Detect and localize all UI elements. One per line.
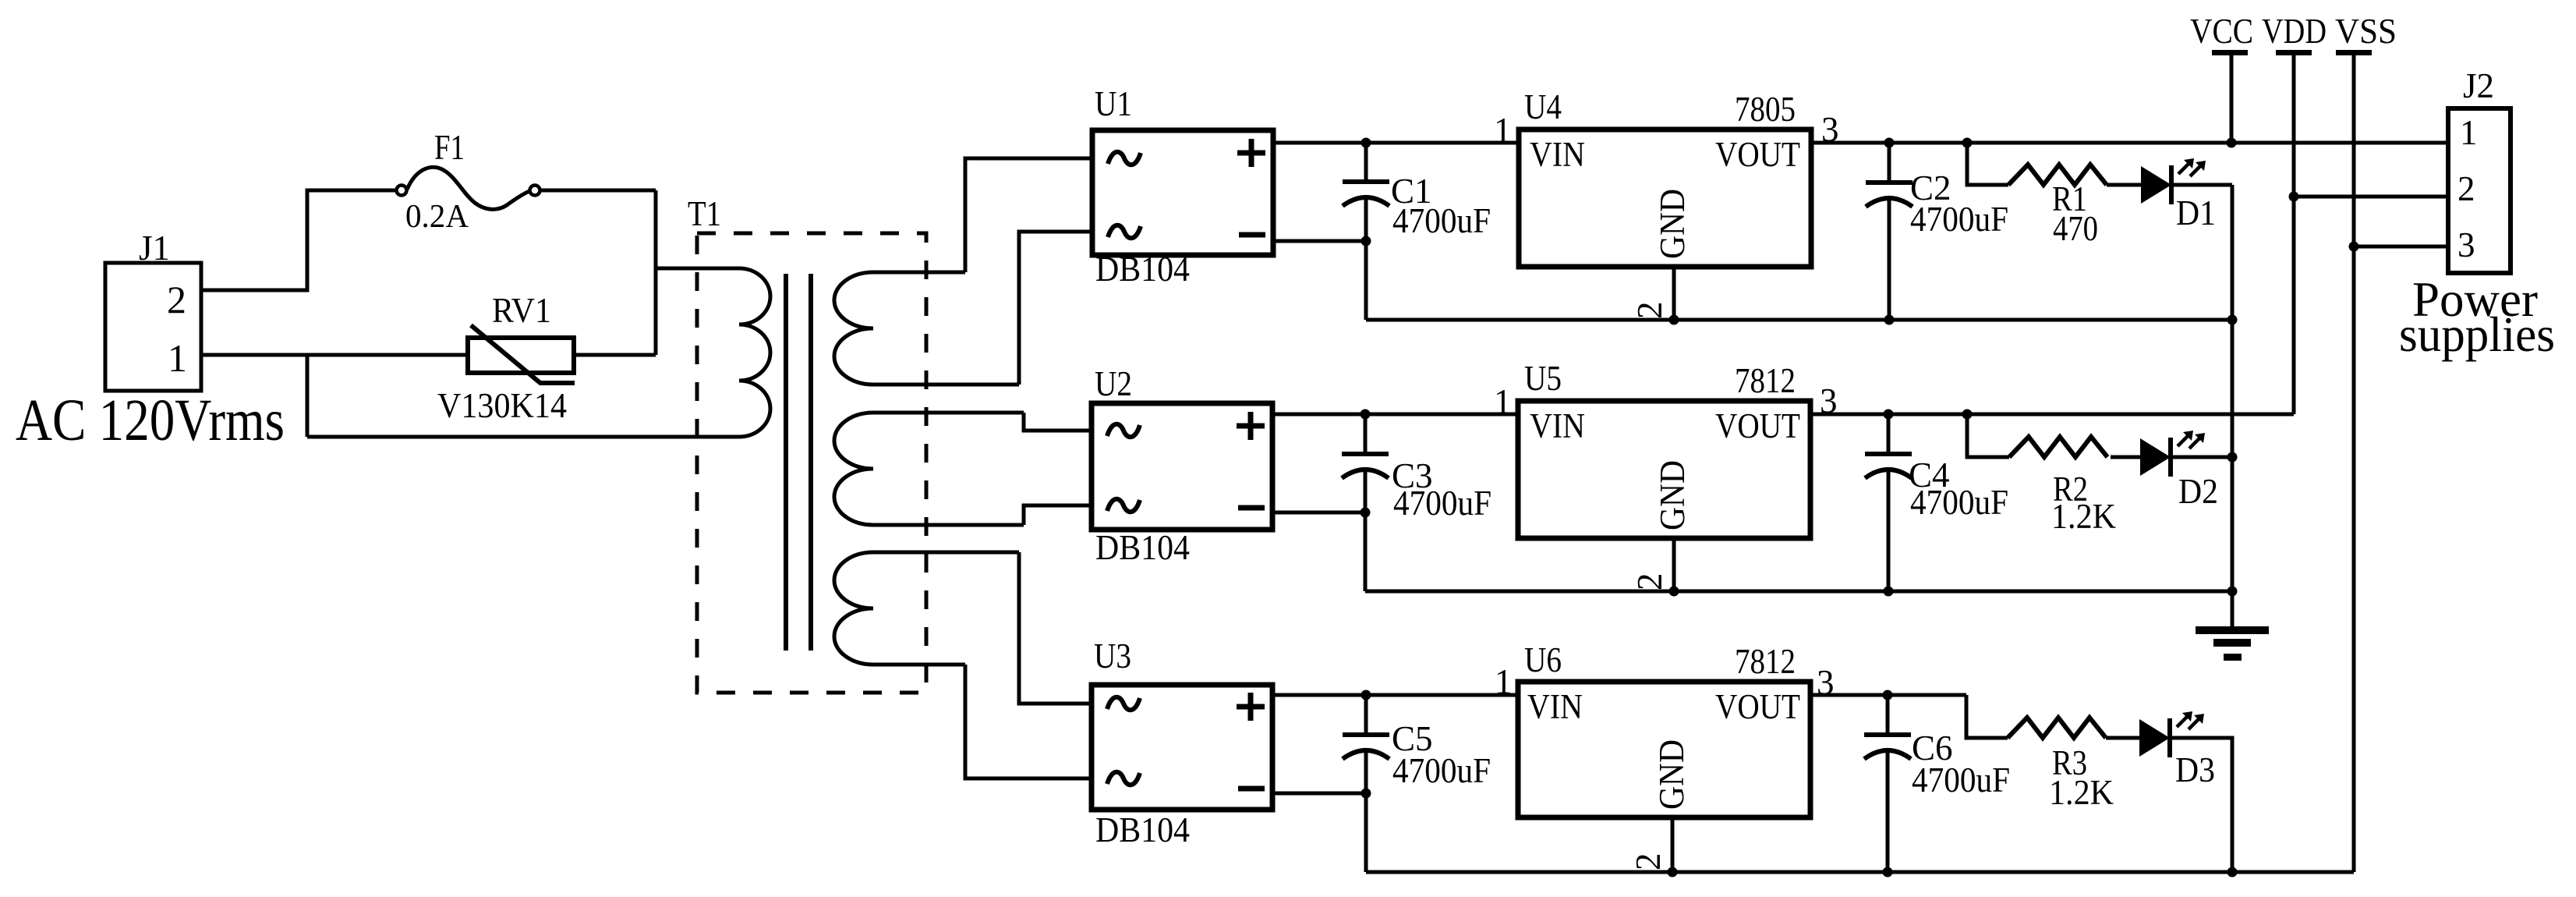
transformer T1 — [688, 194, 926, 693]
node C3 bottom junction — [1361, 508, 1371, 518]
svg-text:2: 2 — [1630, 302, 1669, 320]
wire vertical node x841 fuse/RV1/primary — [654, 190, 658, 355]
svg-text:1: 1 — [168, 336, 187, 380]
wire J2 pin 2 (net VDD) — [2294, 195, 2448, 199]
svg-text:2: 2 — [2457, 169, 2475, 208]
LED D3 — [2139, 711, 2215, 789]
node row1 gnd to ground line — [2227, 315, 2238, 325]
svg-text:V130K14: V130K14 — [437, 386, 567, 425]
svg-text:4700uF: 4700uF — [1393, 484, 1491, 523]
LED D2 — [2140, 431, 2218, 511]
wire secondary1 top to U1 in1 — [965, 158, 1092, 272]
svg-text:GND: GND — [1653, 460, 1692, 530]
fuse F1 — [397, 128, 540, 235]
svg-text:D3: D3 — [2175, 750, 2215, 789]
node U4 pin2 junction — [1669, 315, 1679, 325]
wire U6 VOUT — [1810, 693, 1966, 697]
svg-text:DB104: DB104 — [1095, 528, 1190, 567]
capacitor C2 — [1866, 143, 2008, 320]
wire U4 VOUT to J2 pin 1 (net VCC) — [1811, 141, 2448, 145]
capacitor C6 — [1864, 695, 2010, 872]
capacitor C1 — [1343, 143, 1491, 320]
svg-text:VCC: VCC — [2190, 12, 2253, 51]
node R2 branch junction — [1962, 409, 1973, 420]
svg-text:7805: 7805 — [1735, 90, 1796, 129]
wire U5 pin 2 (GND) — [1672, 538, 1676, 591]
node C1 top junction — [1361, 138, 1371, 148]
wire secondary2 top to U2 in1 — [1024, 413, 1092, 431]
svg-text:2: 2 — [1629, 853, 1668, 871]
LED D1 — [2141, 158, 2216, 232]
wire U5 VOUT to VDD riser — [1810, 413, 2294, 417]
wire J1 pin 2 to fuse — [201, 190, 396, 290]
varistor RV1 — [437, 291, 575, 425]
wire U3 plus to U6 VIN — [1272, 693, 1518, 697]
node C4 top junction — [1884, 409, 1894, 420]
wire D2 cathode to ground line — [2171, 456, 2232, 459]
wire D1 cathode to ground line — [2171, 183, 2232, 187]
node U6 pin2 junction — [1668, 867, 1678, 877]
svg-text:4700uF: 4700uF — [1910, 483, 2008, 522]
svg-text:D1: D1 — [2176, 193, 2216, 232]
wire secondary3 top to U3 in1 — [1019, 552, 1092, 704]
svg-text:VOUT: VOUT — [1715, 687, 1800, 726]
svg-text:AC 120Vrms: AC 120Vrms — [16, 388, 285, 453]
transformer secondary winding 3 — [834, 552, 1019, 665]
wire J1 pin1 drop to primary return — [306, 355, 310, 437]
bridge rectifier U3 — [1092, 636, 1272, 849]
svg-text:4700uF: 4700uF — [1910, 200, 2008, 239]
transformer secondary winding 1 — [834, 272, 1019, 385]
node VDD to J2 pin2 — [2289, 192, 2299, 202]
node D3 drop junction — [2227, 867, 2238, 877]
svg-text:VIN: VIN — [1530, 135, 1585, 174]
svg-text:U3: U3 — [1094, 636, 1131, 675]
wire U6 pin 2 (GND) — [1671, 817, 1675, 872]
svg-text:U4: U4 — [1524, 87, 1562, 126]
voltage regulator U5 7812 — [1494, 359, 1838, 538]
svg-text:J1: J1 — [139, 229, 170, 268]
svg-text:7812: 7812 — [1735, 361, 1796, 400]
svg-text:DB104: DB104 — [1095, 810, 1190, 849]
svg-text:VIN: VIN — [1530, 406, 1585, 445]
transformer core — [786, 274, 811, 651]
node D2 cathode junction — [2227, 452, 2238, 463]
svg-text:4700uF: 4700uF — [1912, 760, 2010, 799]
svg-text:1: 1 — [1494, 111, 1512, 150]
wire row1 ground bus — [1366, 318, 2232, 322]
connector J1 — [16, 229, 285, 453]
svg-text:U2: U2 — [1095, 364, 1132, 403]
node C5 top junction — [1361, 690, 1371, 700]
svg-text:1.2K: 1.2K — [2049, 773, 2114, 812]
wire secondary2 bottom to U2 in2 — [1024, 505, 1092, 525]
resistor R1 470 — [1967, 143, 2141, 248]
svg-text:VSS: VSS — [2335, 12, 2397, 51]
wire J1 pin 1 to RV1 — [201, 353, 468, 357]
svg-text:1: 1 — [2460, 113, 2478, 152]
resistor R2 1.2K — [1967, 414, 2140, 536]
wire D3 cathode to row3 ground bus — [2170, 738, 2232, 872]
bridge rectifier U1 — [1092, 84, 1273, 289]
wire U2 plus to U5 VIN — [1272, 413, 1518, 417]
capacitor C3 — [1342, 414, 1491, 591]
svg-text:4700uF: 4700uF — [1392, 751, 1491, 790]
resistor R3 1.2K — [1966, 695, 2139, 812]
svg-text:VIN: VIN — [1527, 687, 1583, 726]
node C6 bottom junction — [1883, 867, 1893, 877]
power flag VSS — [2335, 12, 2397, 872]
svg-text:0.2A: 0.2A — [405, 199, 469, 235]
wire row2 ground bus — [1365, 590, 2232, 594]
svg-text:7812: 7812 — [1735, 642, 1796, 681]
svg-text:RV1: RV1 — [492, 291, 551, 330]
wire fuse to transformer node — [540, 189, 656, 193]
svg-text:F1: F1 — [434, 128, 465, 167]
svg-text:1.2K: 1.2K — [2051, 497, 2116, 536]
svg-text:T1: T1 — [688, 194, 721, 233]
wire U3 minus output — [1272, 792, 1366, 796]
node C1 bottom junction — [1361, 236, 1371, 246]
svg-text:2: 2 — [1630, 573, 1669, 591]
node VSS to J2 pin3 — [2349, 242, 2359, 252]
svg-text:1: 1 — [1494, 382, 1512, 421]
node C5 bottom junction — [1361, 789, 1371, 799]
svg-text:D2: D2 — [2178, 472, 2218, 511]
svg-text:U1: U1 — [1095, 84, 1132, 123]
node C2 bottom junction — [1884, 315, 1895, 325]
node C3 top junction — [1361, 409, 1371, 420]
wire row3 ground bus (net VSS) — [1366, 870, 2354, 874]
capacitor C5 — [1343, 695, 1491, 872]
node R1 branch junction — [1962, 138, 1973, 148]
wire U2 minus output — [1272, 511, 1365, 515]
node C2 top junction — [1884, 138, 1895, 148]
node C4 bottom junction — [1884, 587, 1894, 597]
wire secondary3 bottom to U3 in2 — [965, 665, 1092, 778]
voltage regulator U4 7805 — [1494, 87, 1839, 267]
node C6 top junction — [1883, 690, 1893, 700]
wire U1 minus output — [1273, 239, 1366, 243]
wire J2 pin 3 (net VSS) — [2354, 245, 2448, 249]
bridge rectifier U2 — [1092, 364, 1272, 567]
svg-text:VDD: VDD — [2262, 12, 2327, 51]
svg-text:470: 470 — [2053, 209, 2098, 248]
svg-text:U5: U5 — [1524, 359, 1562, 398]
svg-text:GND: GND — [1653, 189, 1692, 259]
wire secondary1 bottom to U1 in2 — [1019, 232, 1092, 385]
svg-text:DB104: DB104 — [1095, 250, 1190, 289]
power flag VDD — [2262, 12, 2327, 414]
power flag VCC — [2190, 12, 2253, 143]
wire ground line vertical x2863 — [2231, 185, 2235, 630]
svg-text:J2: J2 — [2463, 66, 2494, 105]
ground symbol — [2196, 626, 2269, 661]
voltage regulator U6 7812 — [1495, 640, 1835, 817]
connector J2 — [2399, 66, 2555, 362]
node VCC junction — [2227, 138, 2237, 148]
svg-text:1: 1 — [1495, 662, 1513, 701]
svg-text:GND: GND — [1652, 739, 1691, 810]
wire U1 plus to U4 VIN (node VIN1) — [1273, 141, 1519, 145]
node row2 gnd to ground line — [2227, 587, 2238, 597]
svg-text:supplies: supplies — [2399, 307, 2555, 362]
svg-text:VOUT: VOUT — [1715, 135, 1800, 174]
transformer secondary winding 2 — [834, 413, 1024, 525]
svg-text:4700uF: 4700uF — [1392, 201, 1491, 240]
svg-text:VOUT: VOUT — [1715, 406, 1800, 445]
transformer primary winding — [307, 268, 770, 437]
svg-text:3: 3 — [2457, 225, 2475, 264]
wire U4 pin 2 (GND) — [1672, 267, 1676, 320]
capacitor C4 — [1865, 414, 2008, 591]
svg-text:U6: U6 — [1524, 640, 1562, 679]
wire RV1 to node x841 — [574, 353, 656, 357]
node U5 pin2 junction — [1669, 587, 1679, 597]
svg-text:2: 2 — [167, 278, 186, 321]
